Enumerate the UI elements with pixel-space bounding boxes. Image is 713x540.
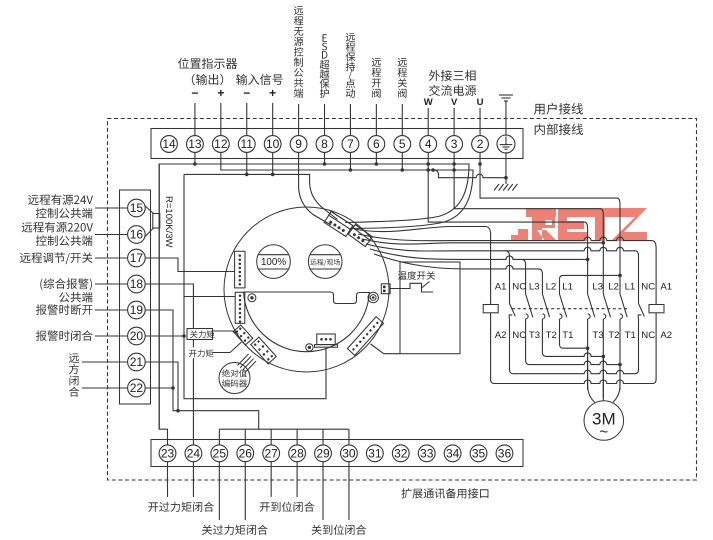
svg-text:−: −: [243, 86, 250, 100]
label 开过力矩闭合: [148, 502, 214, 512]
connector J8 bottom 3-pin: [317, 334, 335, 345]
svg-text:24: 24: [187, 447, 201, 461]
svg-text:A1: A1: [660, 282, 672, 293]
motor 3M three-phase: [584, 401, 624, 441]
label 报警时闭合 for terminal 20: [36, 330, 93, 341]
svg-text:22: 22: [130, 381, 144, 395]
connector J2 vertical 7-pin: [235, 292, 245, 323]
right contactor main contact L1/T1 on phase U column: [619, 205, 621, 294]
dashed boundary between user wiring and internal wiring: [108, 119, 697, 481]
label 报警时断开 for terminal 19: [36, 304, 93, 315]
connector J5 top right 4-pin: [324, 211, 353, 236]
left contactor main contact L2/T2: [542, 294, 549, 317]
junction terminal 21 run: [176, 409, 180, 413]
wire PE terminal to earth symbol: [505, 101, 507, 136]
wire label to terminal 22: [82, 387, 128, 389]
svg-text:32: 32: [394, 447, 408, 461]
bottom distribution bus to terminals 25-30: [219, 428, 348, 430]
svg-text:R=100K/3W: R=100K/3W: [163, 196, 174, 248]
svg-text:26: 26: [239, 447, 253, 461]
label 扩展通讯备用接口 expansion comm spare port: [401, 488, 488, 498]
right contactor NC contact: [639, 304, 645, 317]
wire terminal 20 to inner box: [145, 335, 184, 337]
phase V wire terminal 3 to contactor column and motor: [454, 152, 603, 215]
temperature switch block: [381, 284, 390, 294]
wire terminal 19 to bottom bus: [145, 310, 259, 429]
vertical label 远方闭合 for terminals 21-22: [69, 353, 79, 396]
svg-text:13: 13: [188, 137, 202, 151]
label 用户接线 (user wiring): [534, 103, 583, 115]
terminal 25: [211, 445, 228, 462]
terminal 15: [128, 199, 146, 217]
vertical label 远程开阀 remote open for terminal 6: [372, 58, 381, 67]
svg-text:19: 19: [130, 303, 144, 317]
svg-text:33: 33: [420, 447, 434, 461]
ground wire from actuator loop to PE with hop over U column: [433, 170, 506, 178]
wire terminal 13 drop to bus A: [194, 152, 196, 164]
svg-text:~: ~: [599, 424, 608, 441]
junction: [400, 168, 404, 172]
terminal 20: [128, 327, 146, 345]
svg-text:36: 36: [498, 447, 512, 461]
top terminal strip box terminals 14-2 and ground: [151, 129, 523, 159]
connector J4 encoder: [251, 337, 277, 364]
wire terminal 28 down: [296, 462, 298, 498]
wire label to terminal 15: [95, 207, 128, 209]
svg-text:35: 35: [472, 447, 486, 461]
svg-text:NC: NC: [641, 282, 655, 293]
wire terminal 9 drop into connector J5: [299, 152, 331, 225]
wire terminal 5 drop to bus B: [401, 152, 403, 170]
wire inner box to connector J2: [184, 296, 235, 298]
loop rectangle right of actuator: [400, 262, 460, 354]
label 远程有源24V控制公共端 for terminal 15: [28, 194, 93, 205]
wire terminal 7 drop to bus B: [349, 152, 351, 170]
svg-text:6: 6: [373, 137, 380, 151]
junction terminal 13: [193, 162, 197, 166]
label 关过力矩闭合: [202, 525, 268, 535]
svg-text:+: +: [269, 86, 276, 100]
label 关力矩 close torque with box: [187, 329, 213, 340]
plate screw left: [248, 294, 256, 302]
wire terminal 13 to - label: [194, 103, 196, 136]
svg-text:T2: T2: [546, 330, 557, 341]
left contactor L1 column branch: [559, 279, 561, 294]
resistor R=100K/3W between terminals 15 and 16: [153, 214, 160, 229]
svg-text:T1: T1: [625, 330, 636, 341]
svg-text:27: 27: [265, 447, 279, 461]
svg-text:T1: T1: [562, 330, 573, 341]
svg-text:21: 21: [130, 355, 144, 369]
inner box top wire from terminals 11 and 10 into connector J5: [184, 174, 338, 219]
control wire to right contactor coil A1 with hops over phase columns: [358, 234, 656, 305]
wire terminal 3 to V: [453, 108, 455, 136]
plate screw right: [368, 292, 378, 302]
wire terminal 11 to - label: [246, 103, 248, 136]
wire terminal 4 to W: [427, 108, 429, 136]
left terminal strip box terminals 15-22: [120, 190, 151, 404]
junction W on bus A: [426, 162, 430, 166]
junction terminal 20: [182, 334, 186, 338]
phase U wire terminal 2 to contactor column and motor: [480, 152, 620, 204]
svg-text:8: 8: [321, 137, 328, 151]
svg-text:15: 15: [130, 201, 144, 215]
wire terminal 23 down: [167, 462, 169, 498]
svg-text:20: 20: [130, 329, 144, 343]
svg-text:30: 30: [342, 447, 356, 461]
phase W wire terminal 4 to contactor column and motor: [428, 152, 587, 228]
svg-text:T3: T3: [529, 330, 540, 341]
svg-text:L2: L2: [546, 282, 557, 293]
encoder ribbon wires: [238, 354, 257, 373]
svg-text:12: 12: [214, 137, 228, 151]
junction W on bus B: [426, 168, 430, 172]
vertical label 远程关阀 remote close for terminal 5: [398, 58, 407, 67]
connector J1 vertical 8-pin: [235, 251, 245, 288]
pointer wire 开力矩 to connector: [213, 342, 242, 353]
junction V on bus B: [452, 168, 456, 172]
terminal 2: [472, 136, 489, 153]
terminal 4: [420, 136, 437, 153]
wire PE drop: [505, 152, 507, 184]
svg-text:29: 29: [316, 447, 330, 461]
terminal 21: [128, 353, 146, 371]
actuator body outer circle: [224, 207, 389, 372]
rail T2 left to T2 right motor phase 2: [542, 322, 603, 357]
svg-text:NC: NC: [512, 330, 526, 341]
wire terminal 2 to U: [479, 108, 481, 136]
wire terminal 21 to lower run: [145, 362, 178, 411]
terminal 19: [128, 301, 146, 319]
connector J7 limit switch strip lower right: [347, 317, 383, 356]
wire terminal 7 to its label: [349, 104, 351, 136]
label 位置指示器（输出） position indicator output: [178, 58, 237, 69]
rail NC common: [510, 319, 639, 374]
wire terminal 12 to + label: [220, 103, 222, 136]
svg-text:NC: NC: [641, 330, 655, 341]
terminal 28: [289, 445, 306, 462]
bottom terminal strip box terminals 23-36: [151, 440, 523, 467]
junction phase U: [618, 274, 622, 278]
junction: [271, 173, 275, 177]
svg-text:4: 4: [425, 137, 432, 151]
junction V on bus A: [452, 162, 456, 166]
terminal 7: [342, 136, 359, 153]
left contactor coil KM1: [483, 305, 498, 313]
svg-text:−: −: [191, 86, 198, 100]
terminal 29: [315, 445, 332, 462]
svg-text:L2: L2: [608, 282, 619, 293]
wire bus drop to terminal 30: [348, 429, 350, 445]
svg-text:16: 16: [130, 228, 144, 242]
wire terminal 6 to its label: [375, 104, 377, 136]
decorative red JRETZ watermark: [511, 208, 647, 241]
label 外接三相交流电源 external three-phase AC supply: [429, 70, 476, 81]
svg-text:17: 17: [130, 251, 144, 265]
svg-text:11: 11: [241, 137, 254, 151]
svg-text:9: 9: [295, 137, 302, 151]
svg-text:V: V: [451, 97, 458, 108]
wire terminal 9 to its label: [298, 104, 300, 136]
control wire to left L2 column with hops: [374, 254, 542, 294]
wire bus drop to terminal 25: [218, 429, 220, 445]
svg-text:100%: 100%: [261, 257, 286, 268]
vertical label 远程保持/点动 for terminal 7: [346, 33, 356, 42]
junction on bus B: [431, 168, 435, 172]
control wire to left contactor coil A1: [354, 227, 491, 305]
control wire to both NC columns with hops: [366, 244, 639, 304]
svg-text:T3: T3: [592, 330, 603, 341]
wire label to terminal 17: [95, 257, 128, 259]
terminal 31: [366, 445, 383, 462]
rail T1 left to T3 right motor phase 1: [560, 322, 588, 349]
junction: [245, 173, 249, 177]
wire limit switch connector to loop rectangle: [371, 344, 401, 354]
rail T3 left to T1 right motor phase 3: [526, 322, 620, 365]
svg-text:W: W: [424, 97, 433, 108]
left contactor NC column branch: [506, 251, 510, 304]
terminal 5: [394, 136, 411, 153]
wire terminal 8 drop to bus A: [324, 152, 326, 164]
label 关到位闭合: [312, 525, 367, 535]
connector J3 torque switches: [233, 325, 252, 345]
wire terminal 30 down: [348, 462, 350, 521]
terminal 24: [185, 445, 202, 462]
bus B wire from terminal 12 sweeping to actuator connector: [221, 152, 473, 228]
left contactor L3 column branch: [522, 259, 526, 294]
terminal 33: [418, 445, 435, 462]
left contactor NC contact: [510, 304, 516, 317]
terminal 16: [128, 226, 146, 244]
junction terminal 22: [171, 386, 175, 390]
dial window 远程/现场 remote-local selector: [308, 245, 342, 279]
terminal 26: [237, 445, 254, 462]
terminal 18: [128, 275, 146, 293]
terminal 22: [128, 379, 146, 397]
svg-text:25: 25: [213, 447, 227, 461]
wire terminal 22 stub: [145, 387, 173, 389]
wire label to terminal 16: [95, 234, 128, 236]
label pointer: [422, 282, 430, 289]
control wire to phase V junction: [362, 239, 600, 244]
wire terminal 5 to its label: [401, 104, 403, 136]
svg-text:3: 3: [451, 137, 458, 151]
wire terminal 18 to terminal 24: [145, 284, 193, 445]
svg-text:A2: A2: [660, 330, 672, 341]
svg-text:10: 10: [266, 137, 280, 151]
wire terminal 6 drop to bus A: [375, 152, 377, 164]
left contactor main contact L3/T3: [526, 294, 533, 317]
svg-text:28: 28: [290, 447, 304, 461]
svg-text:23: 23: [161, 447, 175, 461]
left contactor main contact L1/T1: [560, 294, 567, 317]
svg-text:7: 7: [347, 137, 354, 151]
bus A wire left end down to terminal 23 sweeping right to actuator connector: [159, 164, 469, 429]
terminal 14: [161, 136, 178, 153]
label 内部接线 (internal wiring): [535, 124, 583, 136]
terminal 12: [212, 136, 229, 153]
right contactor main contact L2/T2 on phase V column: [602, 215, 604, 294]
svg-text:18: 18: [130, 277, 144, 291]
absolute encoder circle 绝对值编码器: [219, 363, 250, 394]
motor feed wire 3: [613, 365, 620, 403]
wire bus drop to terminal 29: [322, 429, 324, 445]
wire terminal 10 drop: [272, 152, 274, 174]
terminal 30: [341, 445, 358, 462]
terminal 27: [263, 445, 280, 462]
terminal PE ground circle: [497, 135, 515, 153]
label 开到位闭合: [260, 502, 315, 512]
wire terminal 26 down: [244, 462, 246, 521]
terminal 3: [446, 136, 463, 153]
junction PE: [504, 176, 508, 180]
motor feed wire 2 straight: [602, 356, 604, 401]
svg-text:A2: A2: [495, 330, 507, 341]
label 远程调节/开关 for terminal 17: [20, 252, 93, 264]
label (综合报警)公共端 for terminal 18: [40, 278, 92, 290]
mechanical interlock dashed line: [512, 308, 628, 310]
svg-text:14: 14: [162, 137, 176, 151]
terminal 10: [264, 136, 281, 153]
wire terminal 27 down: [270, 462, 272, 498]
earth ground symbol below PE: [494, 184, 517, 191]
junction phase V: [602, 241, 606, 245]
inner wiring box around actuator left side: [184, 174, 326, 398]
right contactor main contact L3/T3 on phase W column: [587, 229, 589, 294]
right contactor coil KM2: [649, 305, 664, 313]
terminal 17: [128, 249, 146, 267]
svg-text:L1: L1: [562, 282, 573, 293]
label 开力矩 open torque: [187, 348, 216, 359]
wire label to terminal 18: [95, 283, 128, 285]
earth symbol above PE terminal: [499, 95, 513, 101]
pointer wire 关力矩 to connector: [213, 331, 239, 335]
bottom plate screw: [306, 344, 313, 351]
terminal 23: [159, 445, 176, 462]
svg-text:NC: NC: [512, 282, 526, 293]
terminal 34: [444, 445, 461, 462]
dial window 100%: [257, 245, 291, 279]
junction: [375, 162, 379, 166]
svg-text:U: U: [477, 97, 484, 108]
svg-text:+: +: [217, 86, 224, 100]
wire bus from bus A down the left side to terminal 23: [159, 164, 167, 445]
label 温度开关 temperature switch: [398, 271, 435, 280]
wire terminal 29 down: [322, 462, 324, 521]
wire bus drop to terminal 27: [270, 429, 272, 445]
terminal 8: [316, 136, 333, 153]
wire label to terminal 19: [95, 309, 128, 311]
terminal 6: [368, 136, 385, 153]
rail left L1 to phase U junction: [560, 275, 617, 279]
temperature switch wire with contact: [390, 283, 433, 292]
svg-text:34: 34: [446, 447, 460, 461]
wire terminal 8 to its label: [324, 104, 326, 136]
junction phase W: [586, 258, 590, 262]
actuator inner plate with notch and arc: [244, 292, 370, 352]
terminal 13: [187, 136, 204, 153]
wire terminal 17 to connector J1: [145, 258, 234, 272]
svg-text:2: 2: [477, 137, 484, 151]
motor feed wire 1: [588, 348, 595, 402]
svg-text:L1: L1: [625, 282, 636, 293]
terminal 9: [290, 136, 307, 153]
terminal 11: [238, 136, 255, 153]
vertical label 远程无源控制公共端 for terminal 9: [294, 6, 303, 15]
wire label to terminal 21: [82, 361, 128, 363]
wire bus drop to terminal 28: [296, 429, 298, 445]
rail coil A2 common: [491, 313, 656, 384]
connector J6 top right 3-pin: [348, 225, 372, 247]
junction U on bus A: [478, 162, 482, 166]
wire terminal 15 to resistor: [145, 206, 154, 214]
wire terminal 16 to resistor: [145, 228, 154, 237]
wire bus drop to terminal 26: [244, 429, 246, 445]
terminal 32: [392, 445, 409, 462]
wire terminal 10 to + label: [272, 103, 274, 136]
svg-text:A1: A1: [495, 282, 507, 293]
label 输入信号 input signal: [236, 74, 283, 85]
svg-text:L3: L3: [529, 282, 540, 293]
wire terminal 11 drop: [246, 152, 248, 174]
junction: [349, 168, 353, 172]
terminal 35: [470, 445, 487, 462]
svg-text:T2: T2: [608, 330, 619, 341]
wire terminal 24 down: [192, 462, 194, 498]
junction: [323, 162, 327, 166]
label 远程有源220V控制公共端 for terminal 16: [22, 222, 93, 233]
vertical label ESD超越保护 for terminal 8: [323, 34, 328, 42]
control wire to left L3 column and phase W junction with hop: [370, 249, 584, 259]
wire label to terminal 20: [95, 335, 128, 337]
svg-text:31: 31: [368, 447, 382, 461]
terminal 36: [496, 445, 513, 462]
wire terminal 25 down: [218, 462, 220, 521]
svg-text:5: 5: [399, 137, 406, 151]
svg-text:L3: L3: [592, 282, 603, 293]
